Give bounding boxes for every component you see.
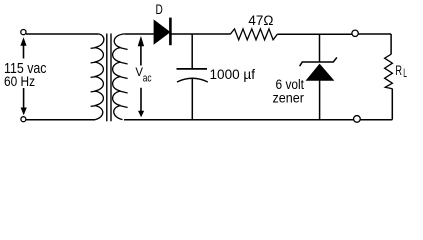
svg-text:R: R bbox=[395, 63, 402, 78]
svg-text:1000 µf: 1000 µf bbox=[210, 67, 256, 83]
svg-text:L: L bbox=[403, 68, 407, 80]
svg-text:47Ω: 47Ω bbox=[248, 13, 273, 29]
svg-text:ac: ac bbox=[143, 73, 152, 85]
svg-text:D: D bbox=[156, 2, 163, 17]
svg-text:zener: zener bbox=[273, 91, 305, 107]
svg-text:60 Hz: 60 Hz bbox=[4, 74, 35, 90]
